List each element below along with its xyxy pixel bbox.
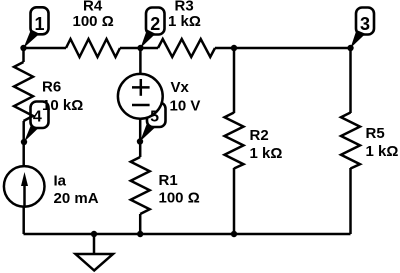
svg-text:4: 4 xyxy=(33,109,42,126)
wire right column node3 to R5 xyxy=(349,48,352,113)
junction R2 top xyxy=(231,45,237,51)
voltage source Vx 10 V xyxy=(118,74,200,119)
wire R2 column top xyxy=(233,48,236,113)
node 2 callout xyxy=(141,8,165,49)
svg-text:2: 2 xyxy=(150,14,160,34)
junction node 2 xyxy=(137,45,143,51)
svg-text:3: 3 xyxy=(360,14,370,34)
wire right column R5 to bottom bus xyxy=(349,168,352,234)
resistor R5 1 kΩ (vertical) xyxy=(341,113,398,169)
svg-text:1 kΩ: 1 kΩ xyxy=(168,13,201,30)
svg-text:1 kΩ: 1 kΩ xyxy=(366,143,399,160)
resistor R4 100 Ω (horizontal) xyxy=(66,0,120,57)
node 3 callout xyxy=(351,8,375,49)
wire left column node1 to R6 xyxy=(22,48,25,62)
wire top bus: R4 to node2 xyxy=(120,47,158,50)
junction R2 bottom xyxy=(231,231,237,237)
svg-text:R2: R2 xyxy=(250,127,269,144)
resistor R6 10 kΩ (vertical, drawn over node 4 box) xyxy=(14,62,83,121)
wire top bus: R3 to node3 xyxy=(215,47,351,50)
node 1 callout xyxy=(24,7,49,48)
resistor R2 1 kΩ (vertical) xyxy=(225,113,283,169)
svg-text:20 mA: 20 mA xyxy=(54,190,99,207)
wire bottom bus xyxy=(24,233,351,236)
svg-text:100 Ω: 100 Ω xyxy=(159,189,200,206)
svg-text:Vx: Vx xyxy=(171,79,190,96)
node 5 callout box xyxy=(140,103,166,142)
svg-text:10 kΩ: 10 kΩ xyxy=(42,97,83,114)
wire left column Ia to bottom bus xyxy=(22,206,25,234)
junction node 3 xyxy=(347,45,353,51)
node 4 callout box xyxy=(24,102,49,143)
svg-text:R6: R6 xyxy=(42,79,61,96)
wire middle column R1 to bottom bus xyxy=(139,214,142,234)
current source Ia 20 mA xyxy=(4,166,99,207)
wire top bus: node1 to R4 xyxy=(24,47,67,50)
junction R1 bottom xyxy=(137,231,143,237)
svg-text:10 V: 10 V xyxy=(170,98,201,115)
wire middle column node2 to Vx xyxy=(139,48,142,75)
junction ground xyxy=(91,231,97,237)
wire left column R6 to Ia xyxy=(22,121,25,167)
junction node 5 xyxy=(137,138,143,144)
resistor R3 1 kΩ (horizontal) xyxy=(158,0,215,57)
junction node 1 xyxy=(20,45,26,51)
svg-text:1 kΩ: 1 kΩ xyxy=(250,145,283,162)
wire R2 column bottom xyxy=(233,168,236,234)
svg-text:R1: R1 xyxy=(159,172,178,189)
junction node 4 xyxy=(21,139,27,145)
ground xyxy=(76,234,114,271)
svg-text:100 Ω: 100 Ω xyxy=(73,13,114,30)
svg-text:1: 1 xyxy=(34,14,44,34)
svg-text:Ia: Ia xyxy=(54,173,67,190)
svg-text:5: 5 xyxy=(150,109,159,126)
svg-text:R5: R5 xyxy=(366,125,385,142)
wire middle column Vx to R1 xyxy=(139,118,142,158)
resistor R1 100 Ω (vertical) xyxy=(131,157,200,214)
